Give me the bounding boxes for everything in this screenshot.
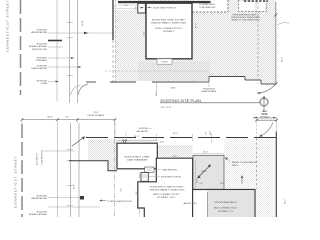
corner arc bottom right bbox=[258, 84, 276, 93]
sidewalk joint ticks (top plan) bbox=[67, 23, 74, 76]
svg-text:PATIO: PATIO bbox=[202, 170, 207, 173]
rear setback dashed vertical bbox=[256, 138, 258, 189]
svg-text:(E) CURB CUT: (E) CURB CUT bbox=[37, 152, 39, 165]
curb line bbox=[56, 0, 58, 101]
label existing sewer lateral bbox=[29, 41, 63, 52]
stoop box bbox=[157, 59, 172, 64]
svg-text:CURB: CURB bbox=[41, 83, 48, 85]
house texts bbox=[150, 187, 185, 200]
curb line bbox=[57, 123, 59, 217]
svg-text:41'-0": 41'-0" bbox=[144, 31, 146, 36]
denser hardscape band below building bbox=[138, 62, 210, 81]
rear setback dashed line (existing) bbox=[257, 2, 259, 84]
svg-text:STREET #2: STREET #2 bbox=[218, 211, 234, 213]
svg-text:PORCH ADDITION: PORCH ADDITION bbox=[108, 200, 133, 203]
label gas meter top bbox=[126, 128, 152, 141]
svg-text:94'-6": 94'-6" bbox=[282, 57, 284, 62]
stipple front yard bbox=[88, 139, 117, 171]
shed (dashed, to be removed) bbox=[239, 0, 269, 12]
dash-dot line x139.5 bbox=[139, 173, 141, 217]
sidewalk line 2 bbox=[78, 123, 80, 217]
svg-text:CAR GARAGE: CAR GARAGE bbox=[127, 158, 149, 161]
svg-text:20'-0": 20'-0" bbox=[134, 136, 139, 138]
driveway apron arc bbox=[78, 84, 88, 95]
svg-text:ADDITION: ADDITION bbox=[184, 202, 198, 205]
svg-text:24'-0": 24'-0" bbox=[124, 5, 129, 7]
porch box bbox=[141, 173, 182, 182]
svg-text:EXISTING: EXISTING bbox=[37, 43, 48, 45]
small arc mark bbox=[120, 189, 122, 192]
house text bbox=[151, 20, 186, 33]
street centerline bbox=[21, 124, 23, 217]
svg-text:8'-0": 8'-0" bbox=[135, 6, 137, 10]
svg-text:NEW CONCRETE: NEW CONCRETE bbox=[232, 162, 258, 164]
sidewalk line 2 bbox=[77, 0, 79, 103]
sidewalk joint ticks bbox=[67, 150, 74, 206]
svg-text:24'-0": 24'-0" bbox=[220, 183, 225, 185]
svg-text:EXISTING PORCH: EXISTING PORCH bbox=[161, 177, 182, 179]
label new concrete patio bbox=[225, 157, 258, 167]
dim 24'-0" house width bbox=[156, 133, 192, 141]
label existing water meter (proposed plan) bbox=[31, 195, 84, 200]
svg-text:SIDEWALK: SIDEWALK bbox=[36, 59, 48, 62]
svg-text:1845 CONNECTICUT: 1845 CONNECTICUT bbox=[153, 194, 181, 196]
svg-text:SETBACK: SETBACK bbox=[260, 115, 270, 118]
south property line (dashed dark) bbox=[86, 77, 276, 85]
sidewalk line 1 bbox=[70, 123, 72, 217]
label existing curb bbox=[37, 80, 59, 85]
svg-text:1845 CONNECTICUT: 1845 CONNECTICUT bbox=[214, 208, 239, 210]
svg-text:14'-0": 14'-0" bbox=[203, 151, 208, 153]
garage bbox=[117, 143, 157, 169]
svg-text:STREET: STREET bbox=[163, 31, 175, 33]
east wing (addition + ADU) bbox=[184, 190, 256, 220]
patio dim 14'-0" bbox=[193, 151, 224, 153]
svg-text:PROPOSED ADU: PROPOSED ADU bbox=[215, 201, 238, 204]
rear setback dim bbox=[255, 111, 278, 138]
svg-text:SINGLE FAMILY DWELLING: SINGLE FAMILY DWELLING bbox=[150, 188, 185, 191]
svg-text:PATIO: PATIO bbox=[232, 164, 238, 167]
svg-text:40'-0": 40'-0" bbox=[74, 184, 76, 189]
svg-text:14'-0": 14'-0" bbox=[196, 178, 198, 183]
svg-text:7'-6": 7'-6" bbox=[65, 116, 69, 118]
svg-text:24'-0": 24'-0" bbox=[160, 141, 165, 143]
svg-text:40'-0": 40'-0" bbox=[47, 116, 53, 118]
svg-text:24'-0": 24'-0" bbox=[173, 133, 178, 135]
porch addition label + arrow bbox=[99, 200, 132, 204]
curb cut removal label (rotated) bbox=[37, 149, 76, 165]
side setback dashed line bbox=[115, 0, 117, 83]
stipple above garage (light) bbox=[117, 139, 157, 143]
svg-text:GAS METER: GAS METER bbox=[162, 168, 178, 171]
proposed house footprint bbox=[138, 158, 193, 219]
rear yard up arrow bbox=[241, 175, 243, 184]
patio side dim bbox=[194, 160, 196, 188]
label preserved shed to be removed bbox=[231, 2, 266, 21]
title existing site plan bbox=[160, 99, 260, 109]
label existing hardscape bbox=[202, 78, 218, 93]
patio denser stipple bbox=[193, 155, 224, 189]
svg-text:4'-0": 4'-0" bbox=[206, 131, 208, 135]
existing house footprint bbox=[146, 3, 192, 59]
svg-text:SINGLE FAMILY DWELLING: SINGLE FAMILY DWELLING bbox=[151, 21, 186, 24]
svg-text:25'-0": 25'-0" bbox=[93, 112, 98, 114]
covered patio (dashed, to be removed) bbox=[193, 0, 229, 12]
north arrow bbox=[253, 96, 277, 118]
driveway apron arc 2 bbox=[71, 85, 81, 95]
driveway boundary steps bbox=[69, 161, 117, 171]
svg-text:SEWER LATERAL: SEWER LATERAL bbox=[29, 213, 48, 216]
svg-text:(WITH SLOPE): (WITH SLOPE) bbox=[32, 49, 47, 51]
svg-text:EXISTING: EXISTING bbox=[37, 195, 48, 197]
svg-text:GAS METER: GAS METER bbox=[136, 130, 148, 133]
svg-text:1845 CONNECTICUT: 1845 CONNECTICUT bbox=[155, 28, 183, 30]
svg-text:EXISTING SITE PLAN: EXISTING SITE PLAN bbox=[161, 99, 202, 103]
street centerline bbox=[20, 0, 22, 95]
corner arc top right bbox=[277, 23, 289, 25]
patio slope arrow bbox=[197, 165, 211, 179]
svg-text:EXISTING ONE: EXISTING ONE bbox=[125, 157, 151, 159]
svg-text:1/8" = 1'-0": 1/8" = 1'-0" bbox=[161, 107, 172, 109]
svg-text:EXISTING: EXISTING bbox=[37, 29, 48, 31]
svg-text:STOOP: STOOP bbox=[161, 61, 168, 63]
garage dim 20'-0" bbox=[117, 136, 157, 141]
east property line bbox=[275, 132, 277, 218]
section marker A bbox=[123, 140, 127, 144]
stipple patio bbox=[193, 155, 224, 189]
svg-text:14'-0": 14'-0" bbox=[210, 130, 212, 135]
svg-text:27'-0": 27'-0" bbox=[196, 23, 198, 28]
stipple rear yard (light) bbox=[224, 139, 276, 190]
side setback dashed line horizontal bbox=[105, 70, 209, 72]
svg-text:EXISTING: EXISTING bbox=[37, 80, 48, 82]
stipple side strip bbox=[158, 146, 193, 157]
svg-text:8'-0": 8'-0" bbox=[136, 191, 138, 195]
label existing water meter bbox=[31, 29, 114, 34]
ADU interior stipple bbox=[207, 190, 254, 217]
svg-text:SEWER LATERAL: SEWER LATERAL bbox=[29, 45, 48, 48]
svg-text:FRONT SETBACK: FRONT SETBACK bbox=[88, 114, 105, 117]
svg-text:94'-6": 94'-6" bbox=[284, 199, 286, 204]
svg-text:WATER METER: WATER METER bbox=[31, 197, 47, 200]
svg-text:LANDSCAPING: LANDSCAPING bbox=[31, 67, 47, 70]
stipple east strip (light) bbox=[256, 190, 277, 218]
svg-text:HARDSCAPE: HARDSCAPE bbox=[202, 90, 218, 93]
curved leader arrow bbox=[261, 123, 274, 137]
dash-dot lot line x114.5 bbox=[114, 121, 116, 217]
lot stipple (existing) bbox=[115, 0, 276, 84]
curb cut slash bbox=[72, 137, 85, 147]
east dimension line 94'-6" bbox=[274, 2, 283, 86]
sidewalk line 1 bbox=[69, 0, 71, 103]
svg-text:CONNECTICUT STREET: CONNECTICUT STREET bbox=[14, 156, 18, 208]
svg-text:EXISTING: EXISTING bbox=[37, 57, 48, 59]
svg-text:EXISTING ONE-STORY: EXISTING ONE-STORY bbox=[151, 187, 185, 189]
north property line (dashed dark) bbox=[86, 137, 276, 139]
house top band bbox=[118, 1, 211, 3]
svg-text:TO BE REMOVED: TO BE REMOVED bbox=[42, 149, 44, 165]
svg-text:COVERED PATIO: COVERED PATIO bbox=[199, 3, 216, 6]
svg-text:EXISTING: EXISTING bbox=[37, 211, 48, 213]
patio border bbox=[193, 155, 224, 189]
svg-text:STREET #1/2: STREET #1/2 bbox=[157, 197, 176, 199]
svg-text:TO BE REMOVED: TO BE REMOVED bbox=[199, 7, 216, 9]
svg-text:EXISTING PORCH: EXISTING PORCH bbox=[154, 7, 176, 9]
bottom label (cut) bbox=[29, 207, 100, 216]
svg-text:CONNECTICUT STREET: CONNECTICUT STREET bbox=[6, 0, 10, 52]
label existing sidewalk bbox=[36, 57, 75, 62]
svg-text:REAR: REAR bbox=[262, 113, 268, 116]
existing porch box bbox=[138, 3, 146, 13]
svg-text:EXISTING: EXISTING bbox=[139, 128, 149, 130]
gas meter box bbox=[145, 167, 178, 172]
front dimension line bbox=[21, 112, 117, 138]
front property line bbox=[112, 0, 114, 40]
svg-text:WATER METER: WATER METER bbox=[31, 31, 47, 34]
label existing porch bbox=[148, 7, 176, 10]
svg-text:EXISTING ONE-STORY: EXISTING ONE-STORY bbox=[152, 20, 186, 22]
label existing landscaping bbox=[31, 65, 81, 70]
svg-text:49.08: 49.08 bbox=[82, 20, 84, 26]
dims 4'-0" 14'-0" rotated bbox=[206, 130, 212, 143]
svg-text:SHED TO BE REMOVED: SHED TO BE REMOVED bbox=[232, 19, 261, 21]
side yard dim line bbox=[158, 145, 193, 147]
svg-text:EXISTING: EXISTING bbox=[37, 65, 48, 67]
svg-text:24'-0": 24'-0" bbox=[173, 156, 178, 158]
svg-text:9'-0": 9'-0" bbox=[199, 183, 203, 185]
